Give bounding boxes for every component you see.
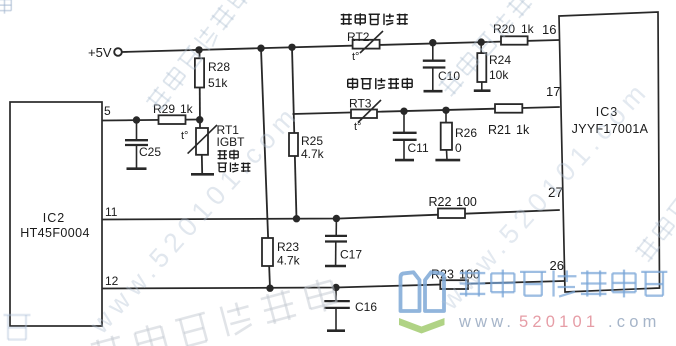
resistor R22 100 [429, 195, 477, 218]
ground C10 [424, 90, 443, 93]
resistor R25 4.7k [289, 133, 325, 161]
resistor R21 1k [488, 104, 530, 137]
ground C17 [325, 265, 346, 268]
junction node pin5 C25 [133, 116, 140, 123]
junction node RT3 C11 [400, 108, 407, 115]
resistor R23 4.7k [262, 238, 301, 268]
junction node +5V branch RT3 [288, 44, 295, 51]
IC U3 IC3 JYYF17001A [559, 12, 660, 292]
site logo book icon [399, 272, 445, 333]
ground R24 [474, 89, 491, 92]
svg-text:16: 16 [542, 22, 556, 37]
svg-text:www.: www. [458, 313, 515, 331]
junction node +5V R24 R20 [478, 38, 485, 45]
svg-text:.com: .com [608, 313, 661, 331]
svg-text:t°: t° [354, 121, 361, 133]
ground C25 [127, 167, 147, 170]
svg-text:R22: R22 [429, 195, 452, 209]
svg-text:C17: C17 [340, 248, 362, 262]
svg-text:5: 5 [104, 104, 111, 118]
svg-text:R25: R25 [301, 134, 323, 148]
svg-text:26: 26 [550, 258, 564, 273]
junction node R25 pin11 rail [293, 215, 300, 222]
svg-text:R26: R26 [455, 126, 477, 140]
svg-text:0: 0 [455, 141, 462, 155]
svg-text:4.7k: 4.7k [301, 147, 325, 161]
svg-text:C25: C25 [139, 145, 161, 159]
svg-text:51k: 51k [208, 76, 228, 90]
watermark diagonal url right [433, 74, 655, 316]
thermistor RT2 bottom sensor [347, 30, 383, 63]
junction node RT3 R26 [442, 107, 449, 114]
watermark big gray text bottom [90, 276, 339, 346]
svg-text:R23: R23 [277, 240, 299, 254]
resistor R29 1k [153, 102, 194, 124]
watermark diagonal url left [83, 98, 305, 340]
ground RT1 [191, 173, 214, 176]
ground C11 [395, 159, 414, 162]
svg-text:t°: t° [181, 130, 188, 142]
resistor R20 1k [493, 22, 535, 45]
svg-text:17: 17 [546, 84, 560, 99]
label top cover sensor [348, 78, 412, 90]
watermark corner glyph [0, 0, 11, 14]
junction node R23 pin12 rail [266, 285, 273, 292]
capacitor C11 [393, 111, 429, 160]
svg-text:100: 100 [456, 195, 477, 209]
svg-text:R24: R24 [489, 53, 511, 67]
capacitor C10 [423, 43, 461, 91]
svg-text:R21: R21 [488, 123, 511, 137]
power terminal +5V [88, 45, 122, 60]
svg-text:10k: 10k [489, 68, 509, 82]
wire +5V to RT3 node and R25 vertical [292, 47, 297, 218]
svg-text:520101: 520101 [519, 313, 599, 331]
junction node +5V branch R23 [257, 45, 264, 52]
resistor R23b 100 [431, 268, 480, 290]
label IC3 pin 26 [550, 258, 564, 273]
junction node pin12 C16 [332, 284, 339, 291]
label bottom sensor [341, 13, 408, 25]
svg-text:RT2: RT2 [347, 30, 370, 44]
svg-text:C11: C11 [408, 141, 429, 155]
ground C16 [327, 329, 345, 332]
wire IC2 pin 12 rail to IC3 pin 26 [102, 274, 564, 289]
resistor R28 51k [195, 58, 230, 90]
svg-text:C16: C16 [355, 300, 377, 314]
svg-text:1k: 1k [516, 123, 530, 137]
capacitor C25 [125, 120, 161, 169]
watermark diagonal text upper-left [144, 0, 269, 113]
wire IC2 pin 11 rail to IC3 pin 27 [102, 205, 560, 220]
capacitor C17 [325, 219, 362, 266]
label IC3 pin 17 [546, 84, 560, 99]
wire IC2 pin 5 line [102, 104, 200, 121]
svg-text:t°: t° [352, 51, 359, 63]
svg-text:IC2: IC2 [43, 211, 65, 225]
ground R26 [435, 159, 460, 162]
watermark diagonal text right edge [633, 174, 676, 264]
thermistor RT3 top cover sensor [349, 97, 381, 134]
wire +5V rail [122, 40, 560, 52]
site logo text jiadian weixiu ziliao wang [460, 270, 668, 298]
svg-text:11: 11 [105, 205, 118, 219]
svg-text:R28: R28 [208, 60, 230, 74]
watermark char bottom-left corner [4, 315, 31, 340]
svg-text:RT3: RT3 [349, 97, 372, 111]
junction node pin11 C17 [333, 215, 340, 222]
junction node R29 R28 RT1 [196, 116, 203, 123]
junction node +5V R28 [195, 46, 202, 53]
svg-text:+5V: +5V [88, 45, 112, 60]
junction node +5V C10 [429, 39, 436, 46]
wire RT3 rail to IC3 pin 17 [293, 107, 560, 114]
label IC3 pin 16 [542, 22, 556, 37]
thermistor RT1 IGBT temperature sensor [181, 123, 250, 172]
wire +5V to R23 vertical [261, 48, 270, 288]
resistor R26 0 [441, 110, 478, 160]
svg-text:1k: 1k [521, 22, 535, 36]
wire R28 RT1 vertical [200, 50, 203, 174]
svg-text:1k: 1k [180, 102, 194, 116]
watermark diagonal text mid-right [437, 0, 568, 98]
capacitor C16 [324, 288, 377, 331]
site logo url www.520101.com [458, 313, 661, 331]
svg-text:4.7k: 4.7k [277, 254, 301, 268]
IC U2 IC2 HT45F0004 [10, 102, 102, 326]
label IC3 pin 27 [548, 185, 563, 200]
svg-text:HT45F0004: HT45F0004 [20, 226, 90, 240]
resistor R24 10k [477, 42, 511, 90]
